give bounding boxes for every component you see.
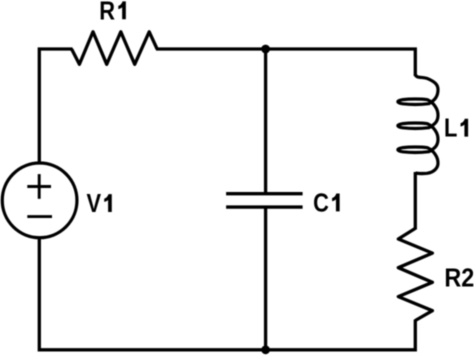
resistor R1 bbox=[72, 32, 158, 65]
node: top junction dot bbox=[261, 45, 270, 54]
capacitor C1 bbox=[226, 194, 303, 207]
voltage source V1 bbox=[2, 163, 77, 238]
wire: left vertical upper + top-left horizontal bbox=[39, 49, 72, 163]
svg-text:C: C bbox=[313, 189, 329, 218]
label L1 bbox=[444, 114, 468, 143]
label C1 bbox=[313, 189, 340, 218]
label V1 bbox=[87, 189, 112, 218]
label R1 bbox=[99, 0, 126, 26]
svg-text:R2: R2 bbox=[444, 264, 474, 292]
wire: capacitor bottom lead bbox=[264, 207, 267, 350]
wire: R1 to top junction to top-right corner with right stub bbox=[156, 49, 415, 76]
svg-text:V: V bbox=[87, 189, 102, 218]
wire: left vertical lower + bottom horizontal + right vertical lower bbox=[39, 238, 415, 350]
wire: capacitor top lead bbox=[264, 49, 267, 194]
svg-text:R: R bbox=[99, 0, 115, 26]
svg-text:L: L bbox=[444, 114, 457, 143]
resistor R2 bbox=[398, 228, 432, 320]
node: bottom junction dot bbox=[261, 345, 270, 354]
wire: inductor to R2 stub bbox=[414, 172, 417, 230]
inductor L1 bbox=[398, 75, 438, 174]
